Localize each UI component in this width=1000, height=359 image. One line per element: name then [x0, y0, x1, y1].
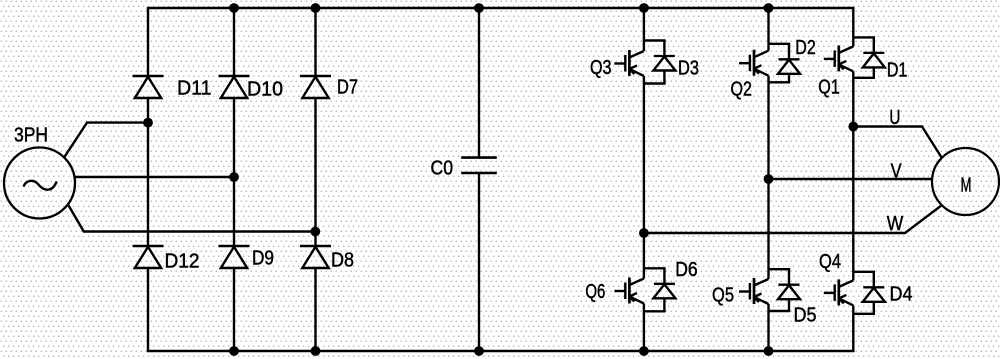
wire Q3/D3 loop top	[644, 39, 666, 41]
wire Q1/D1 loop top	[853, 36, 875, 38]
svg-text:Q4: Q4	[819, 251, 841, 273]
wire 3PH phase S to node S	[75, 176, 234, 178]
diode D7	[300, 76, 331, 98]
svg-text:V: V	[891, 161, 903, 183]
wire 3PH phase R to node R	[64, 123, 148, 158]
label D10	[247, 79, 283, 101]
svg-text:D4: D4	[890, 284, 913, 306]
capacitor C0	[461, 158, 497, 173]
wire bottom DC- rail	[147, 350, 855, 352]
svg-text:D8: D8	[331, 250, 354, 272]
svg-text:M: M	[961, 175, 972, 197]
diode D6	[653, 268, 675, 311]
label D7	[337, 77, 358, 99]
node S junction	[229, 172, 239, 182]
wire rectifier column 3 middle lead	[314, 98, 316, 246]
transistor Q4	[824, 279, 854, 305]
svg-text:Q1: Q1	[818, 77, 840, 99]
wire Q2/D2 loop top	[769, 43, 791, 45]
wire rectifier column 1 upper lead	[147, 8, 149, 76]
diode D10	[219, 76, 250, 98]
node T junction	[310, 227, 320, 237]
label Q5	[712, 285, 734, 307]
svg-text:D6: D6	[675, 259, 698, 281]
wire 3PH phase T to node T	[68, 205, 315, 232]
wire top DC+ rail	[147, 7, 855, 9]
wire Q5/D5 loop top	[769, 268, 791, 270]
wire Q6/D6 loop top	[644, 267, 666, 269]
label D6	[675, 259, 698, 281]
label D1	[887, 59, 908, 81]
label Q6	[585, 281, 605, 303]
wire rectifier column 3 upper lead	[314, 8, 316, 76]
svg-text:D7: D7	[337, 77, 358, 99]
label C0	[431, 157, 454, 179]
node DC+ rail junction x643	[639, 3, 649, 13]
label D12	[165, 251, 200, 273]
svg-text:D1: D1	[887, 59, 908, 81]
wire capacitor upper lead	[478, 8, 480, 158]
diode D4	[863, 272, 885, 314]
label D2	[795, 37, 816, 59]
wire Q3 collector to DC+ rail	[643, 8, 645, 51]
label 3PH	[14, 125, 48, 147]
label Q3	[590, 57, 612, 79]
label Q2	[731, 79, 753, 101]
label Q1	[818, 77, 840, 99]
label M	[961, 175, 972, 197]
svg-text:D10: D10	[247, 79, 283, 101]
wire Q5/D5 loop bottom	[769, 310, 791, 312]
diode D3	[653, 41, 675, 84]
wire Q1 emitter to Q4 collector	[852, 71, 854, 280]
svg-text:D12: D12	[165, 251, 200, 273]
diode D5	[778, 269, 800, 311]
diode D9	[219, 246, 250, 268]
node DC+ rail junction x315	[311, 3, 321, 13]
label D8	[331, 250, 354, 272]
label W	[887, 213, 904, 235]
wire Q4 emitter to DC- rail	[852, 305, 854, 351]
node DC- rail junction x479	[474, 346, 484, 356]
wire rectifier column 1 lower lead	[147, 267, 149, 351]
diode D1	[863, 37, 885, 77]
wire phase U to motor	[853, 127, 942, 159]
wire Q2 collector to DC+ rail	[767, 8, 769, 51]
wire phase V to motor	[769, 178, 933, 180]
node DC+ rail junction x768	[764, 3, 774, 13]
label D11	[177, 78, 212, 100]
node DC- rail junction x315	[311, 346, 321, 356]
wire Q1 collector to DC+ rail	[852, 8, 854, 46]
svg-text:Q6: Q6	[585, 281, 605, 303]
label Q4	[819, 251, 841, 273]
node DC+ rail junction x479	[474, 3, 484, 13]
wire rectifier column 2 upper lead	[233, 8, 235, 76]
transistor Q3	[614, 50, 644, 76]
wire capacitor lower lead	[478, 173, 480, 351]
label D3	[678, 58, 699, 80]
label V	[891, 161, 903, 183]
source 3PH	[4, 148, 75, 219]
svg-text:D5: D5	[794, 305, 817, 327]
node DC+ rail junction x234	[229, 3, 239, 13]
wire Q3 emitter to Q6 collector	[643, 76, 645, 279]
label D4	[890, 284, 913, 306]
wire Q1/D1 loop bottom	[853, 77, 875, 79]
wire Q5 emitter to DC- rail	[767, 304, 769, 351]
node DC- rail junction x768	[764, 346, 774, 356]
transistor Q2	[739, 50, 769, 76]
node U junction	[848, 122, 858, 132]
svg-text:W: W	[887, 213, 904, 235]
svg-text:D9: D9	[252, 248, 274, 270]
wire phase W to motor	[644, 205, 942, 233]
label D5	[794, 305, 817, 327]
label D9	[252, 248, 274, 270]
node DC- rail junction x643	[639, 346, 649, 356]
wire rectifier column 3 lower lead	[314, 267, 316, 351]
wire Q4/D4 loop top	[853, 271, 875, 273]
diode D11	[133, 76, 164, 98]
wire Q2 emitter to Q5 collector	[767, 76, 769, 279]
svg-text:Q2: Q2	[731, 79, 753, 101]
svg-text:D3: D3	[678, 58, 699, 80]
wire rectifier column 2 lower lead	[233, 267, 235, 351]
wire rectifier column 2 middle lead	[233, 98, 235, 246]
node W junction	[639, 228, 649, 238]
node R junction	[143, 118, 153, 128]
svg-text:D11: D11	[177, 78, 212, 100]
wire rectifier column 1 middle lead	[147, 98, 149, 246]
svg-text:D2: D2	[795, 37, 816, 59]
wire Q3/D3 loop bottom	[644, 82, 666, 84]
node DC- rail junction x234	[229, 346, 239, 356]
transistor Q6	[614, 278, 644, 304]
svg-text:Q5: Q5	[712, 285, 734, 307]
wire Q6 emitter to DC- rail	[643, 304, 645, 352]
diode D8	[300, 246, 331, 268]
diode D12	[133, 246, 164, 268]
wire Q4/D4 loop bottom	[853, 313, 875, 315]
svg-text:U: U	[889, 107, 900, 129]
diode D2	[778, 44, 800, 83]
transistor Q5	[739, 278, 769, 304]
svg-text:3PH: 3PH	[14, 125, 48, 147]
node V junction	[764, 174, 774, 184]
wire Q6/D6 loop bottom	[644, 310, 666, 312]
svg-text:Q3: Q3	[590, 57, 612, 79]
transistor Q1	[824, 45, 854, 71]
svg-text:C0: C0	[431, 157, 454, 179]
motor M	[932, 148, 999, 215]
wire Q2/D2 loop bottom	[769, 81, 791, 83]
label U	[889, 107, 900, 129]
